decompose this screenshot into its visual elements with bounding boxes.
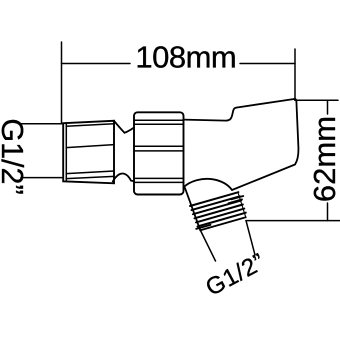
waist top notch bbox=[114, 121, 134, 133]
outlet end face bbox=[200, 217, 246, 230]
thread crest 3 bbox=[193, 200, 241, 214]
coupling cylinder rib 3a bbox=[134, 177, 184, 179]
dimension 108mm left extension line bbox=[61, 42, 63, 123]
coupling cylinder rib 3b bbox=[134, 181, 184, 183]
thread partial crest top 1 bbox=[229, 199, 243, 203]
outlet left edge bbox=[185, 188, 200, 230]
outlet thread band bbox=[190, 192, 246, 226]
left thread leader top bbox=[21, 123, 63, 125]
bottom label left leader bbox=[201, 231, 216, 262]
hex nut top inner edge bbox=[66, 124, 114, 126]
waist bottom notch bbox=[113, 173, 134, 181]
dimension 62mm line upper segment bbox=[327, 100, 329, 114]
body shoulder dome bbox=[184, 179, 232, 190]
dimension 108mm line left segment bbox=[62, 63, 131, 65]
dimension 62mm top extension line bbox=[295, 99, 338, 101]
hex nut left face chamfer line bbox=[65, 123, 67, 181]
hex nut upper facet line bbox=[66, 145, 114, 148]
body right edge bbox=[232, 99, 298, 190]
thread crest 4 bbox=[195, 205, 243, 219]
dimension 108mm line right segment bbox=[240, 63, 295, 65]
hex nut outline bbox=[63, 121, 114, 184]
body top profile with step bbox=[184, 99, 296, 121]
svg-text:108mm: 108mm bbox=[135, 39, 236, 74]
left thread leader bottom bbox=[21, 177, 62, 179]
dimension 108mm right extension line bbox=[294, 49, 296, 100]
thread crest 2 bbox=[192, 196, 240, 210]
coupling cylinder rib 2b bbox=[134, 150, 184, 152]
svg-text:62mm: 62mm bbox=[307, 116, 340, 202]
thread crest 6 bbox=[198, 213, 246, 227]
svg-text:G1/2”: G1/2” bbox=[0, 118, 29, 194]
hex nut bottom inner edge bbox=[66, 176, 114, 178]
svg-text:G1/2”: G1/2” bbox=[201, 248, 269, 301]
outlet right edge bbox=[238, 194, 246, 218]
thread partial crest top 2 bbox=[232, 196, 244, 199]
hex nut lower facet line bbox=[66, 171, 114, 174]
thread crest 5 bbox=[196, 209, 244, 223]
dimension 62mm line lower segment bbox=[327, 203, 329, 221]
coupling cylinder rib 1b bbox=[134, 123, 184, 125]
dimension 62mm bottom extension line bbox=[246, 220, 340, 222]
thread partial crest bottom left bbox=[196, 225, 210, 229]
bottom label right leader bbox=[246, 221, 255, 255]
coupling cylinder rib 2a bbox=[134, 145, 184, 147]
coupling cylinder outline bbox=[134, 112, 184, 194]
coupling cylinder rib 1a bbox=[134, 119, 184, 121]
thread crest 1 bbox=[190, 192, 238, 206]
